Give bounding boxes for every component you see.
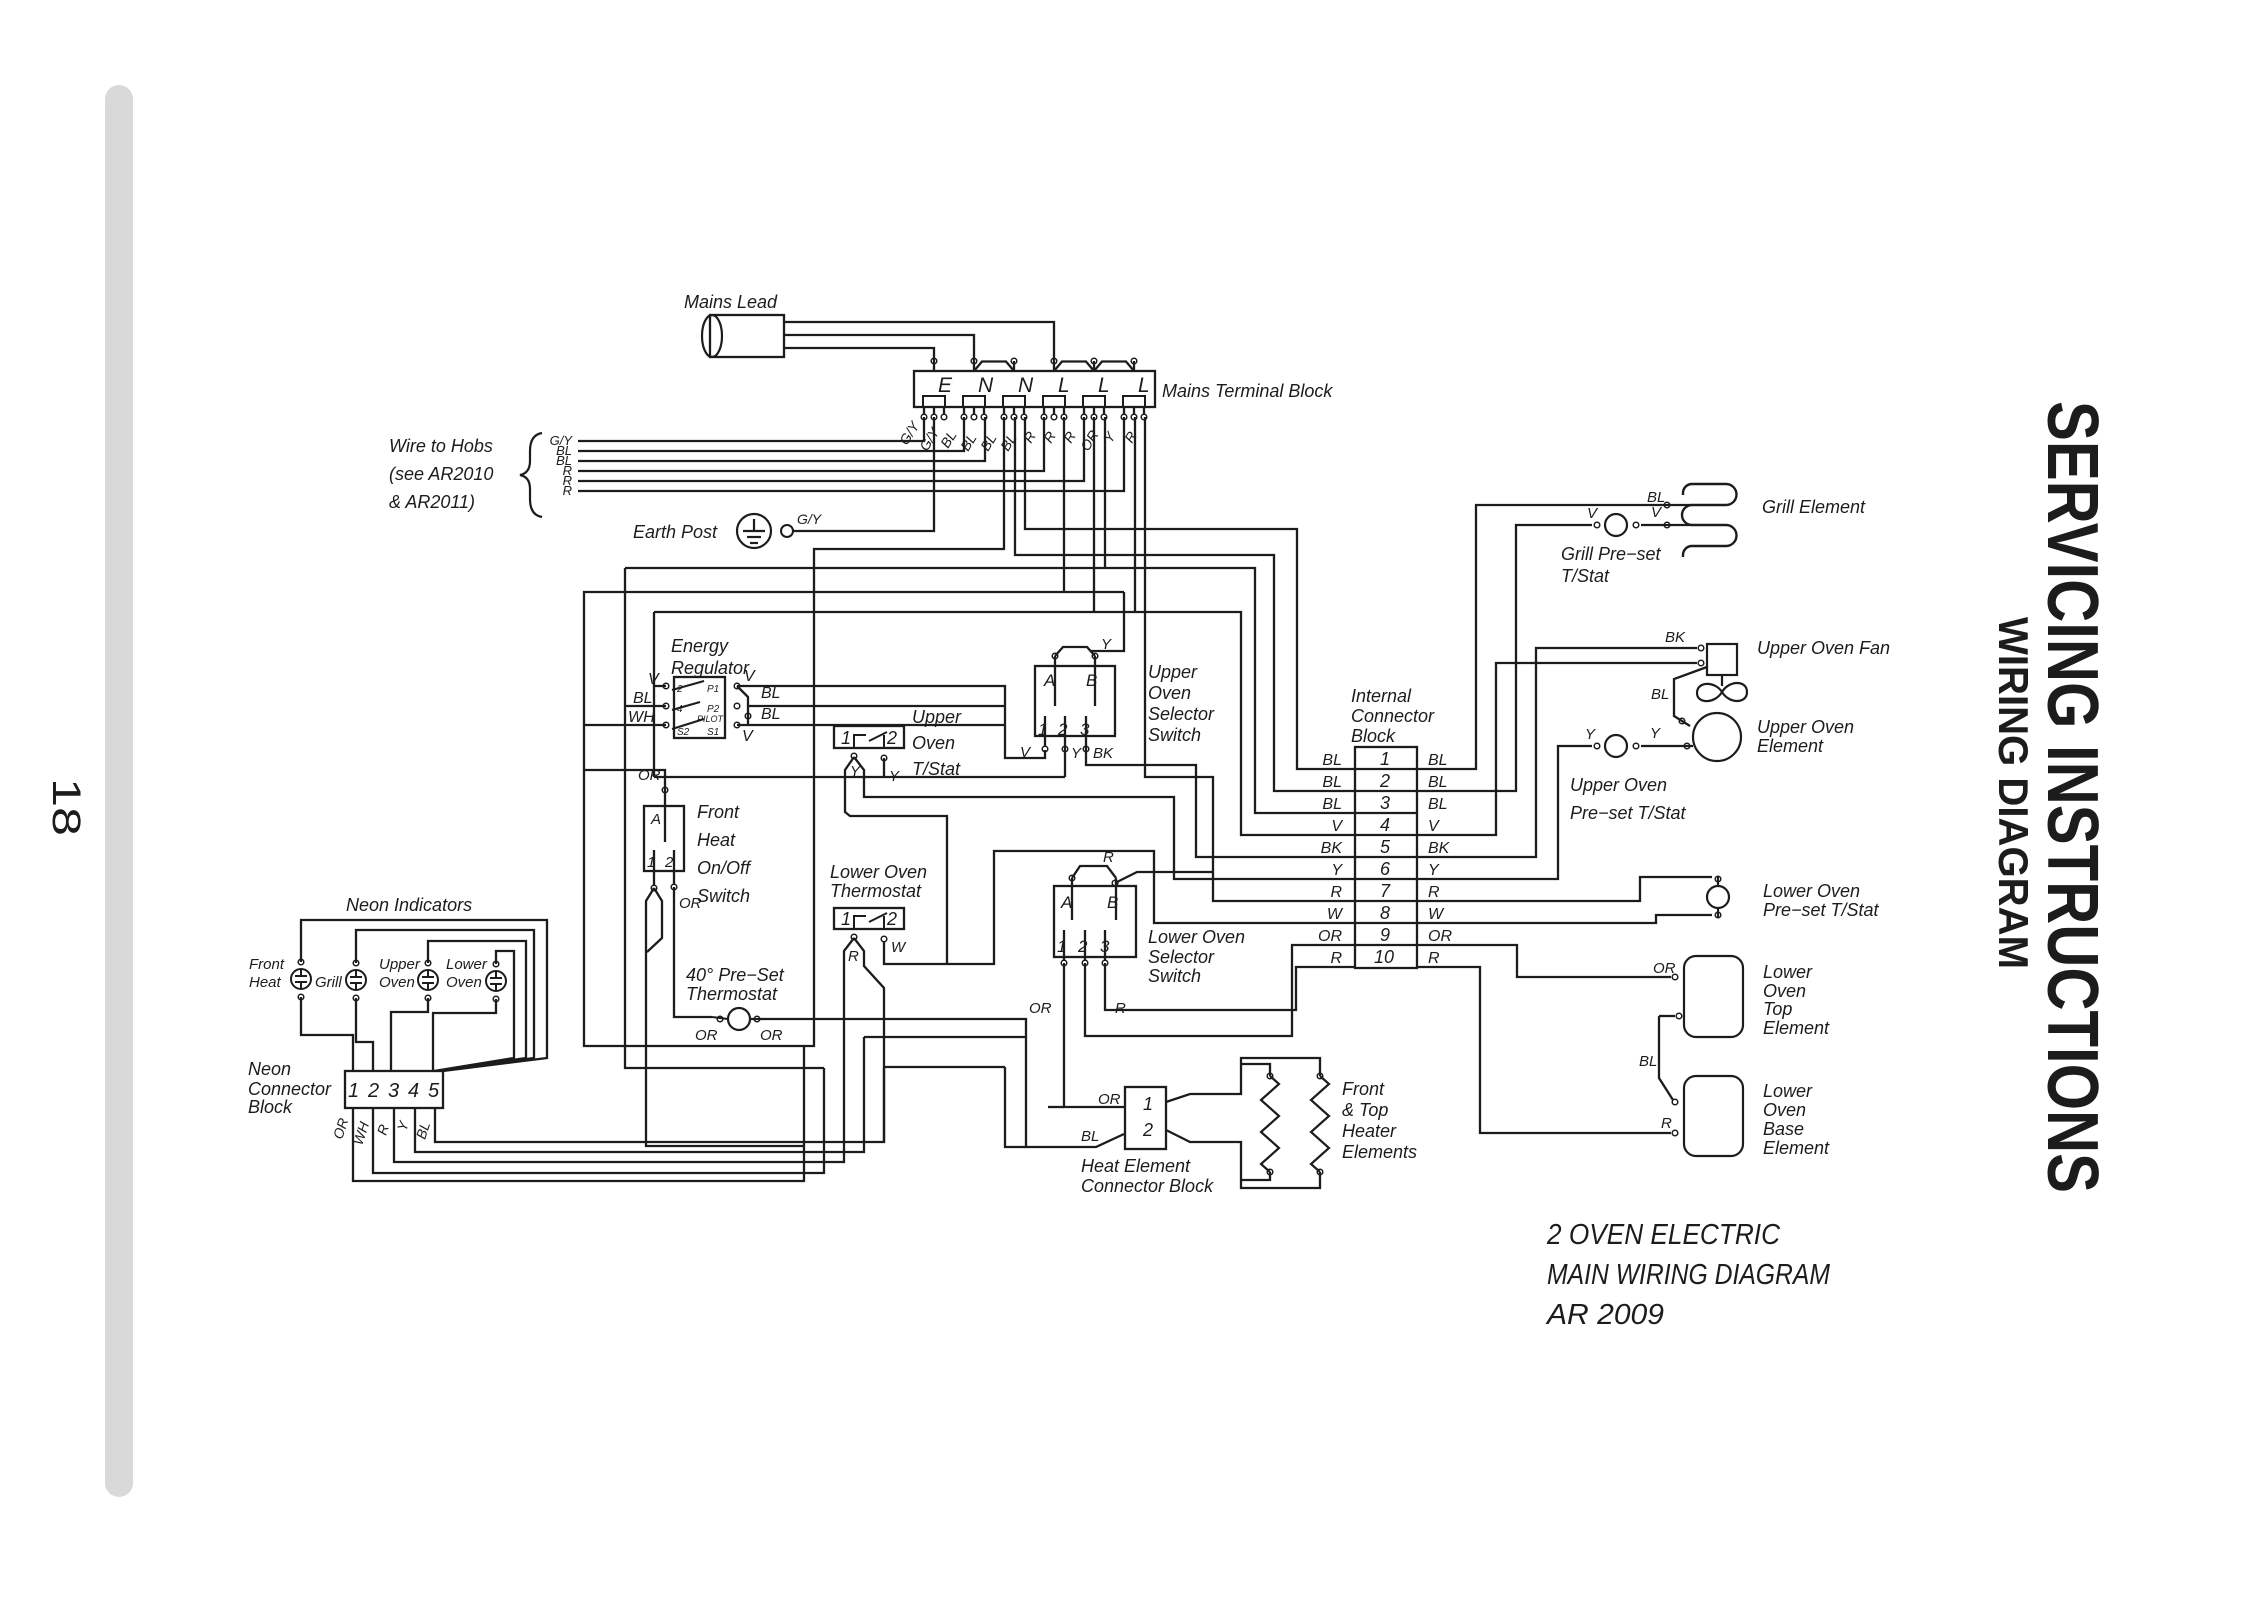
svg-text:Wire to Hobs: Wire to Hobs: [389, 436, 493, 456]
wire FH pin2 down: [674, 887, 712, 1017]
svg-text:OR: OR: [1428, 928, 1452, 945]
svg-text:Neon: Neon: [248, 1059, 291, 1079]
svg-text:OR: OR: [1653, 960, 1676, 977]
svg-text:B: B: [1107, 893, 1118, 912]
svg-text:3: 3: [1100, 937, 1110, 956]
wire US B: [1094, 656, 1096, 706]
svg-text:2: 2: [1379, 771, 1390, 791]
wire hob R2: [578, 417, 1084, 481]
svg-text:1: 1: [1057, 937, 1066, 956]
wire FH pin1: [653, 850, 655, 885]
svg-text:Lower: Lower: [1763, 962, 1813, 982]
wire LS B: [1115, 878, 1117, 920]
wire UOT pin2 stub: [883, 758, 885, 777]
svg-text:2 OVEN ELECTRIC: 2 OVEN ELECTRIC: [1546, 1219, 1781, 1251]
wire neon3 bot: [391, 998, 428, 1071]
neon connector block box: [345, 1071, 443, 1108]
svg-text:P1: P1: [707, 684, 719, 695]
svg-text:4: 4: [677, 704, 683, 715]
wire neon Y: [415, 1037, 864, 1152]
svg-text:1: 1: [841, 909, 851, 929]
svg-text:Connector Block: Connector Block: [1081, 1176, 1214, 1196]
svg-text:Selector: Selector: [1148, 947, 1215, 967]
wire neon4 bot: [433, 999, 496, 1071]
wire mains L: [784, 322, 1054, 361]
connection dots: [298, 358, 1721, 1175]
wire stub: [973, 361, 975, 371]
svg-text:10: 10: [1374, 947, 1394, 967]
svg-text:R: R: [563, 483, 572, 498]
svg-text:Thermostat: Thermostat: [686, 984, 778, 1004]
wire row line: [1355, 856, 1417, 858]
svg-text:(see AR2010: (see AR2010: [389, 464, 493, 484]
wire neon3 top: [428, 941, 526, 1071]
svg-text:Lower Oven: Lower Oven: [1148, 927, 1245, 947]
wire stud: [1133, 407, 1135, 414]
svg-text:BK: BK: [1321, 840, 1344, 857]
wire neon1 bot: [301, 997, 353, 1071]
wire R L2l drop: [1093, 417, 1095, 612]
LOT switch: [854, 913, 887, 929]
svg-text:Y: Y: [1650, 725, 1661, 742]
lower oven top element: [1684, 956, 1743, 1037]
svg-text:BL: BL: [1322, 774, 1342, 791]
wire stud: [1003, 407, 1005, 414]
upper selector box: [1035, 666, 1115, 736]
wire row line: [1355, 944, 1417, 946]
lower selector box: [1054, 886, 1136, 957]
svg-text:R: R: [1428, 950, 1440, 967]
svg-text:BL: BL: [1428, 796, 1448, 813]
svg-text:OR: OR: [1318, 928, 1342, 945]
svg-text:2: 2: [367, 1080, 379, 1102]
svg-text:Grill Element: Grill Element: [1762, 497, 1866, 517]
neon lower oven: [486, 971, 506, 991]
svg-text:2: 2: [676, 684, 683, 695]
wire stud: [933, 407, 935, 414]
wire stud: [923, 407, 925, 414]
wire LOT fork right: [854, 938, 884, 1142]
neon upper oven: [418, 970, 438, 990]
wire neon OR: [353, 1046, 804, 1181]
wire row line: [1355, 900, 1417, 902]
svg-text:Switch: Switch: [1148, 725, 1201, 745]
wire bus 654 ER: [653, 612, 655, 777]
wire FH A: [664, 806, 666, 842]
svg-text:Element: Element: [1757, 736, 1824, 756]
wire neon1 top: [301, 920, 547, 1071]
wire row line: [1355, 922, 1417, 924]
svg-text:BK: BK: [1428, 840, 1451, 857]
wire US BK pin: [1086, 747, 1355, 857]
wire US pin3: [1085, 716, 1087, 746]
terminal insert 1054: [1043, 396, 1065, 407]
mains terminal block box: [914, 371, 1155, 407]
front heat box: [644, 806, 684, 871]
svg-text:2: 2: [1057, 720, 1068, 739]
svg-text:1: 1: [1143, 1094, 1153, 1114]
svg-text:OR: OR: [679, 895, 702, 912]
UOT switch: [854, 732, 887, 748]
svg-text:OR: OR: [638, 767, 661, 784]
wire mains N: [784, 335, 974, 361]
svg-text:R: R: [848, 948, 859, 965]
svg-text:Upper: Upper: [1148, 662, 1198, 682]
svg-text:BL: BL: [761, 685, 781, 702]
svg-text:7: 7: [1380, 881, 1391, 901]
wire BL N2 drop3: [584, 417, 1124, 1046]
lower oven base element: [1684, 1076, 1743, 1156]
svg-text:Y: Y: [1101, 636, 1112, 653]
svg-text:A: A: [1043, 671, 1055, 690]
svg-text:2: 2: [664, 854, 674, 871]
wire row6 Y stat: [1417, 746, 1592, 879]
svg-text:Top: Top: [1763, 999, 1792, 1019]
svg-text:Y: Y: [1428, 862, 1440, 879]
wire LS bridge: [1072, 866, 1116, 878]
svg-text:Upper Oven Fan: Upper Oven Fan: [1757, 638, 1890, 658]
grill element: [1682, 484, 1737, 557]
mains lead end cap: [702, 315, 722, 357]
wire ER bracket: [737, 686, 748, 725]
svg-text:1: 1: [1380, 749, 1390, 769]
wire ER P1 V out: [737, 686, 1045, 758]
svg-text:On/Off: On/Off: [697, 858, 752, 878]
wire neon4 top: [434, 951, 514, 1071]
terminal insert 934: [923, 396, 945, 407]
svg-text:L: L: [1138, 374, 1150, 397]
svg-text:BL: BL: [633, 690, 653, 707]
wire stud: [1123, 407, 1125, 414]
wire row2 grill V: [1417, 525, 1592, 791]
svg-text:Regulator: Regulator: [671, 658, 750, 678]
svg-text:BL: BL: [1322, 796, 1342, 813]
svg-text:Element: Element: [1763, 1018, 1830, 1038]
svg-text:BL: BL: [1428, 752, 1448, 769]
wire stud: [943, 407, 945, 414]
svg-text:Connector: Connector: [1351, 706, 1435, 726]
svg-text:WIRING DIAGRAM: WIRING DIAGRAM: [1990, 617, 2037, 969]
svg-text:Pre−set T/Stat: Pre−set T/Stat: [1763, 900, 1880, 920]
svg-text:& AR2011): & AR2011): [389, 492, 475, 512]
svg-text:Neon Indicators: Neon Indicators: [346, 895, 472, 915]
svg-text:Connector: Connector: [248, 1079, 332, 1099]
svg-text:OR: OR: [1029, 1000, 1052, 1017]
svg-text:R: R: [1428, 884, 1440, 901]
wire earth G/Y: [793, 417, 934, 531]
svg-text:Grill Pre−set: Grill Pre−set: [1561, 544, 1662, 564]
wire topelem BL down: [1659, 1016, 1673, 1100]
wire ER BL out1: [748, 705, 1005, 707]
wire neon R: [394, 938, 854, 1162]
wire UOT fork left: [845, 757, 947, 964]
wire LS pin2 out: [1085, 945, 1355, 1036]
svg-text:5: 5: [1380, 837, 1391, 857]
wire FH fork right: [647, 888, 662, 952]
wire heater out2b: [1241, 1172, 1270, 1180]
wire stud: [1143, 407, 1145, 414]
svg-text:Block: Block: [248, 1097, 293, 1117]
wire US Y out: [1091, 592, 1124, 651]
svg-text:OR: OR: [760, 1027, 783, 1044]
wire hob BL1: [578, 417, 964, 451]
svg-text:Energy: Energy: [671, 636, 729, 656]
svg-text:Thermostat: Thermostat: [830, 881, 922, 901]
svg-text:BL: BL: [761, 706, 781, 723]
wire row line: [1355, 834, 1417, 836]
svg-text:1: 1: [647, 854, 655, 871]
svg-text:Front: Front: [249, 956, 285, 973]
svg-text:4: 4: [1380, 815, 1390, 835]
wire R L1r drop: [1063, 417, 1065, 592]
wire LOT pin2 W: [884, 851, 1355, 964]
svg-text:9: 9: [1380, 925, 1390, 945]
wire stub: [933, 361, 935, 371]
svg-text:& Top: & Top: [1342, 1100, 1388, 1120]
svg-text:BK: BK: [1093, 745, 1114, 762]
40 preset thermostat circle: [728, 1008, 750, 1030]
svg-text:Lower: Lower: [446, 956, 488, 973]
lo stat stubs: [1717, 877, 1719, 917]
wire R L3r drop: [1145, 417, 1355, 901]
wire bus 568: [625, 568, 1355, 813]
wire Y link: [864, 1036, 1026, 1038]
wire LS pin3: [1104, 930, 1106, 960]
svg-text:Front: Front: [697, 802, 740, 822]
mains lead box: [710, 315, 784, 357]
svg-text:N: N: [1018, 374, 1034, 397]
svg-text:Upper Oven: Upper Oven: [1757, 717, 1854, 737]
svg-text:Oven: Oven: [379, 974, 415, 991]
earth post terminal: [781, 525, 793, 537]
svg-text:Switch: Switch: [1148, 966, 1201, 986]
wire US pin2: [1064, 716, 1066, 746]
earth post symbol: [737, 514, 771, 548]
wire LS pin3 R: [1105, 963, 1355, 1010]
wire bus 625 down: [625, 568, 824, 1068]
wire stud: [1083, 407, 1085, 414]
svg-text:R: R: [1661, 1115, 1672, 1132]
grill pre-set t/stat: [1605, 514, 1627, 536]
svg-text:Pre−set T/Stat: Pre−set T/Stat: [1570, 803, 1687, 823]
heater element left: [1261, 1076, 1279, 1172]
wire row line: [1355, 790, 1417, 792]
svg-text:8: 8: [1380, 903, 1390, 923]
svg-text:Switch: Switch: [697, 886, 750, 906]
svg-text:Lower Oven: Lower Oven: [1763, 881, 1860, 901]
svg-text:Lower Oven: Lower Oven: [830, 862, 927, 882]
wire neon2 top: [356, 930, 534, 1071]
wire Y stat link: [1641, 745, 1693, 747]
upper oven element: [1693, 713, 1741, 761]
svg-text:Oven: Oven: [1763, 981, 1806, 1001]
wire grill V link: [1641, 524, 1692, 526]
wire stud: [1023, 407, 1025, 414]
svg-text:L: L: [1058, 374, 1070, 397]
wire ER WH in: [584, 724, 666, 726]
upper oven pre-set t/stat: [1605, 735, 1627, 757]
wire UOT fork right: [854, 757, 1355, 879]
svg-text:MAIN WIRING DIAGRAM: MAIN WIRING DIAGRAM: [1547, 1259, 1831, 1291]
svg-text:A: A: [650, 811, 661, 828]
svg-text:OR: OR: [1098, 1091, 1121, 1108]
wire bridge L-L a: [1054, 362, 1094, 372]
wire stub: [1133, 361, 1135, 371]
neon grill: [346, 970, 366, 990]
svg-text:2: 2: [886, 909, 897, 929]
wire Y bus: [654, 776, 1065, 778]
svg-text:3: 3: [388, 1080, 399, 1102]
svg-text:WH: WH: [628, 709, 655, 726]
svg-text:BL: BL: [1428, 774, 1448, 791]
svg-text:Y: Y: [850, 763, 861, 780]
wire hob R1: [578, 417, 1044, 471]
svg-text:Block: Block: [1351, 726, 1396, 746]
svg-text:Elements: Elements: [1342, 1142, 1417, 1162]
wire row7 LOstat: [1417, 877, 1712, 901]
svg-text:Upper: Upper: [379, 956, 421, 973]
wire stub: [1013, 361, 1015, 371]
svg-text:T/Stat: T/Stat: [912, 759, 961, 779]
wire OR L2r drop: [1104, 417, 1106, 568]
svg-text:R: R: [1115, 1000, 1126, 1017]
wire row line: [1355, 812, 1417, 814]
wire neon BL: [435, 1067, 884, 1142]
svg-text:AR 2009: AR 2009: [1545, 1299, 1664, 1331]
wire stud: [1013, 407, 1015, 414]
wire row5 fan BK: [1417, 648, 1697, 857]
svg-text:V: V: [744, 668, 756, 685]
svg-text:2: 2: [886, 728, 897, 748]
svg-text:R: R: [1330, 950, 1342, 967]
svg-text:3: 3: [1080, 720, 1090, 739]
wire stud: [1063, 407, 1065, 414]
svg-text:40° Pre−Set: 40° Pre−Set: [686, 965, 785, 985]
svg-text:BK: BK: [1665, 629, 1686, 646]
svg-text:Y: Y: [1331, 862, 1343, 879]
wire FH fork left: [646, 888, 804, 1146]
upper oven fan: [1697, 644, 1747, 701]
svg-text:V: V: [1428, 818, 1440, 835]
wire stud: [1103, 407, 1105, 414]
wire neon2 bot: [356, 998, 373, 1071]
svg-text:SERVICING INSTRUCTIONS: SERVICING INSTRUCTIONS: [2032, 401, 2112, 1193]
wire stud: [973, 407, 975, 414]
wire row10 base elem: [1417, 967, 1671, 1133]
terminal insert 974: [963, 396, 985, 407]
svg-text:Selector: Selector: [1148, 704, 1215, 724]
svg-text:BL: BL: [1081, 1128, 1099, 1145]
wire BL N2l drop: [1015, 417, 1355, 791]
svg-text:A: A: [1060, 893, 1072, 912]
wire LS A: [1071, 878, 1073, 920]
wire row line: [1355, 768, 1417, 770]
wire stud: [1053, 407, 1055, 414]
wire row8 LOstat: [1417, 915, 1712, 923]
svg-text:T/Stat: T/Stat: [1561, 566, 1610, 586]
svg-text:4: 4: [408, 1080, 419, 1102]
wire ER BL in: [625, 705, 666, 707]
wire fan BL: [1674, 667, 1707, 726]
svg-text:1: 1: [841, 728, 851, 748]
upper t/stat box: [834, 726, 904, 748]
wire row9 top elem: [1417, 945, 1671, 977]
wire bus 612: [654, 612, 1355, 835]
ER switch contacts: [672, 681, 704, 729]
svg-text:W: W: [1327, 906, 1344, 923]
wire row4 fan: [1417, 663, 1697, 835]
svg-text:Upper: Upper: [912, 707, 962, 727]
svg-text:Oven: Oven: [1148, 683, 1191, 703]
svg-text:E: E: [938, 374, 953, 397]
wire stud: [983, 407, 985, 414]
wire LS pin2: [1084, 930, 1086, 960]
wire US pin1: [1044, 716, 1046, 746]
hobs brace: [520, 433, 542, 517]
svg-text:Oven: Oven: [1763, 1100, 1806, 1120]
lower thermostat box: [834, 908, 904, 929]
wire hob BL2: [578, 417, 985, 461]
terminal insert 1094: [1083, 396, 1105, 407]
svg-text:L: L: [1098, 374, 1110, 397]
wire hob R3: [578, 417, 1124, 491]
heater element right: [1311, 1076, 1329, 1172]
svg-text:Y: Y: [889, 768, 900, 785]
internal connector block box: [1355, 747, 1417, 968]
svg-text:Heat: Heat: [697, 830, 736, 850]
svg-text:R: R: [1103, 849, 1114, 866]
wire neon WH: [373, 1068, 824, 1173]
wire BL N2r drop: [1025, 417, 1355, 769]
svg-text:S2: S2: [677, 727, 690, 738]
svg-text:5: 5: [428, 1080, 440, 1102]
terminal insert 1134: [1123, 396, 1145, 407]
svg-text:V: V: [1331, 818, 1343, 835]
svg-text:1: 1: [1038, 720, 1047, 739]
40stat left wire: [712, 1017, 728, 1019]
svg-text:Mains Lead: Mains Lead: [684, 292, 778, 312]
lower oven pre-set t/stat: [1707, 886, 1729, 908]
wire topelem BL: [1659, 1015, 1675, 1017]
svg-text:BL: BL: [1651, 686, 1669, 703]
wire ER V stub: [654, 685, 666, 687]
wire hob G/Y: [578, 417, 924, 441]
wire BL heater: [1005, 1067, 1124, 1147]
svg-text:Front: Front: [1342, 1079, 1385, 1099]
wire row line: [1355, 878, 1417, 880]
wire heater out1b: [1241, 1064, 1270, 1076]
svg-text:Grill: Grill: [315, 974, 342, 991]
wire LS pin1: [1063, 930, 1065, 960]
svg-text:Heater: Heater: [1342, 1121, 1397, 1141]
svg-text:N: N: [978, 374, 994, 397]
svg-text:Lower: Lower: [1763, 1081, 1813, 1101]
wire Y L3l hob: [1134, 417, 1136, 612]
svg-text:V: V: [742, 728, 754, 745]
svg-text:Upper Oven: Upper Oven: [1570, 775, 1667, 795]
heat element block box: [1125, 1087, 1166, 1149]
wire stud: [1093, 407, 1095, 414]
svg-text:Element: Element: [1763, 1138, 1830, 1158]
wire heater out2: [1166, 1130, 1320, 1188]
svg-text:2: 2: [1077, 937, 1088, 956]
wire stud: [1043, 407, 1045, 414]
wire bridge L-L b: [1094, 362, 1134, 372]
wire stub: [1093, 361, 1095, 371]
terminal insert 1014: [1003, 396, 1025, 407]
wire US A: [1054, 656, 1056, 706]
svg-text:Heat Element: Heat Element: [1081, 1156, 1191, 1176]
